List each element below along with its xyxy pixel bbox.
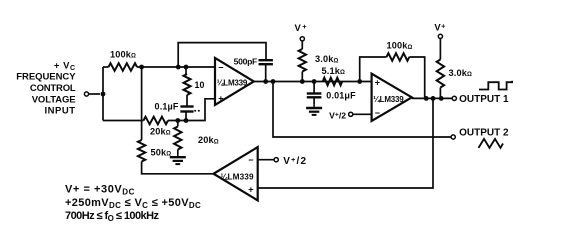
- resistor 10: [184, 74, 191, 95]
- terminal OUTPUT 1: [452, 96, 456, 100]
- wire to 0.01uF: [313, 82, 315, 94]
- capacitor 500pF: [259, 60, 273, 64]
- node 10-ohm junction: [184, 65, 189, 70]
- node input junction: [101, 92, 106, 97]
- resistor 100k input: [109, 63, 138, 71]
- svg-text:¼LM339: ¼LM339: [373, 95, 404, 104]
- wire U3 inverting input: [258, 159, 274, 161]
- capacitor 0.1uF: [180, 107, 193, 112]
- label +VC input block: [16, 60, 76, 116]
- svg-text:0.01μF: 0.01μF: [326, 90, 356, 100]
- square wave glyph: [479, 81, 512, 90]
- wire node A down to 50k: [141, 67, 143, 140]
- svg-text:INPUT: INPUT: [45, 106, 76, 117]
- wire U1 output to U2 input: [254, 81, 372, 83]
- wire to U1 non-inverting input: [168, 99, 215, 121]
- wire 3k right down: [439, 88, 441, 99]
- op-amp U3 quarter LM339 points left: [214, 147, 258, 200]
- wire U1 feedback loop: [178, 43, 266, 67]
- terminal OUTPUT 2: [451, 135, 455, 139]
- svg-text:FREQUENCY: FREQUENCY: [16, 72, 76, 83]
- svg-text:CONTROL: CONTROL: [30, 83, 76, 94]
- wire to 20k vertical: [177, 121, 179, 127]
- svg-text:OUTPUT 2: OUTPUT 2: [459, 128, 509, 139]
- wire input stub: [89, 93, 100, 95]
- svg-text:500pF: 500pF: [234, 56, 257, 66]
- op-amp U2 quarter LM339: [372, 74, 412, 121]
- resistor 5.1k: [323, 78, 343, 86]
- wire V+ to 3k: [301, 41, 303, 49]
- node 3k right junction: [439, 96, 444, 101]
- wire U2 inverting input: [353, 113, 372, 115]
- svg-text:OUTPUT 1: OUTPUT 1: [459, 94, 509, 105]
- svg-text:−: −: [218, 63, 223, 73]
- speckle dots: [194, 110, 196, 112]
- node A junction: [139, 65, 144, 70]
- wire lower horizontal: [103, 120, 144, 122]
- wire U2 feedback right leg: [409, 57, 424, 98]
- node feedback junction: [176, 65, 181, 70]
- node 3k junction: [300, 79, 305, 84]
- svg-text:+250mVDC ≤ VC ≤ +50VDC: +250mVDC ≤ VC ≤ +50VDC: [65, 197, 201, 210]
- svg-text:10: 10: [195, 80, 205, 90]
- svg-text:−: −: [248, 155, 253, 165]
- svg-text:0.1µF: 0.1µF: [155, 102, 179, 112]
- wire U2 feedback left leg: [360, 57, 387, 82]
- wire to resistor 10: [185, 67, 187, 74]
- wire to U1 inverting input: [137, 66, 215, 68]
- wire 20k to ground: [177, 150, 179, 154]
- node 20k-ground junction: [175, 118, 180, 123]
- node output2 takeoff: [271, 79, 276, 84]
- resistor 20k horizontal: [144, 117, 169, 125]
- resistor 20k vertical: [174, 127, 181, 150]
- node 0.01uF junction: [312, 79, 317, 84]
- terminal V+/2 for U3: [274, 158, 278, 162]
- node 100k feedback junction: [357, 79, 362, 84]
- resistor 100k feedback: [387, 53, 410, 61]
- wire cap down: [185, 112, 187, 121]
- triangle wave glyph: [479, 139, 504, 148]
- svg-text:−: −: [375, 108, 380, 118]
- ground under 20k: [170, 154, 186, 165]
- node 500pF junction: [263, 79, 268, 84]
- node cap junction: [184, 118, 189, 123]
- resistor 3.0k left: [299, 49, 306, 72]
- wire 500pF to output: [265, 64, 267, 81]
- node U3 loop junction: [431, 96, 436, 101]
- svg-text:+: +: [375, 78, 380, 88]
- wire 3k down: [301, 72, 303, 82]
- wire output2 run: [273, 82, 451, 138]
- wire 50k to U3 output: [142, 162, 214, 174]
- capacitor 0.01uF: [307, 94, 322, 98]
- wire 0.01uF to ground: [313, 97, 315, 104]
- svg-text:VOLTAGE: VOLTAGE: [32, 95, 76, 106]
- wire U2 output: [412, 97, 452, 99]
- svg-text:¼LM339: ¼LM339: [221, 172, 255, 181]
- wire V+ right down: [439, 39, 441, 60]
- op-amp U1 quarter LM339: [215, 58, 254, 105]
- input terminal +VC: [84, 92, 88, 96]
- resistor 50k: [138, 140, 145, 162]
- resistor 3.0k right: [437, 60, 444, 88]
- node 100k fb junction: [424, 96, 429, 101]
- ground under 0.01uF: [306, 104, 322, 115]
- svg-text:¼LM339: ¼LM339: [217, 78, 248, 87]
- wire to 100k: [103, 66, 109, 68]
- terminal V+ right: [438, 34, 442, 38]
- svg-text:+: +: [248, 184, 253, 194]
- wire resistor 10 to cap: [186, 95, 188, 106]
- terminal V+/2 for U2: [349, 112, 353, 116]
- wire U2 output to U3 non-inverting input: [258, 98, 433, 188]
- svg-text:+: +: [218, 93, 223, 103]
- wire input vertical: [102, 67, 104, 121]
- terminal V+ middle: [300, 37, 304, 41]
